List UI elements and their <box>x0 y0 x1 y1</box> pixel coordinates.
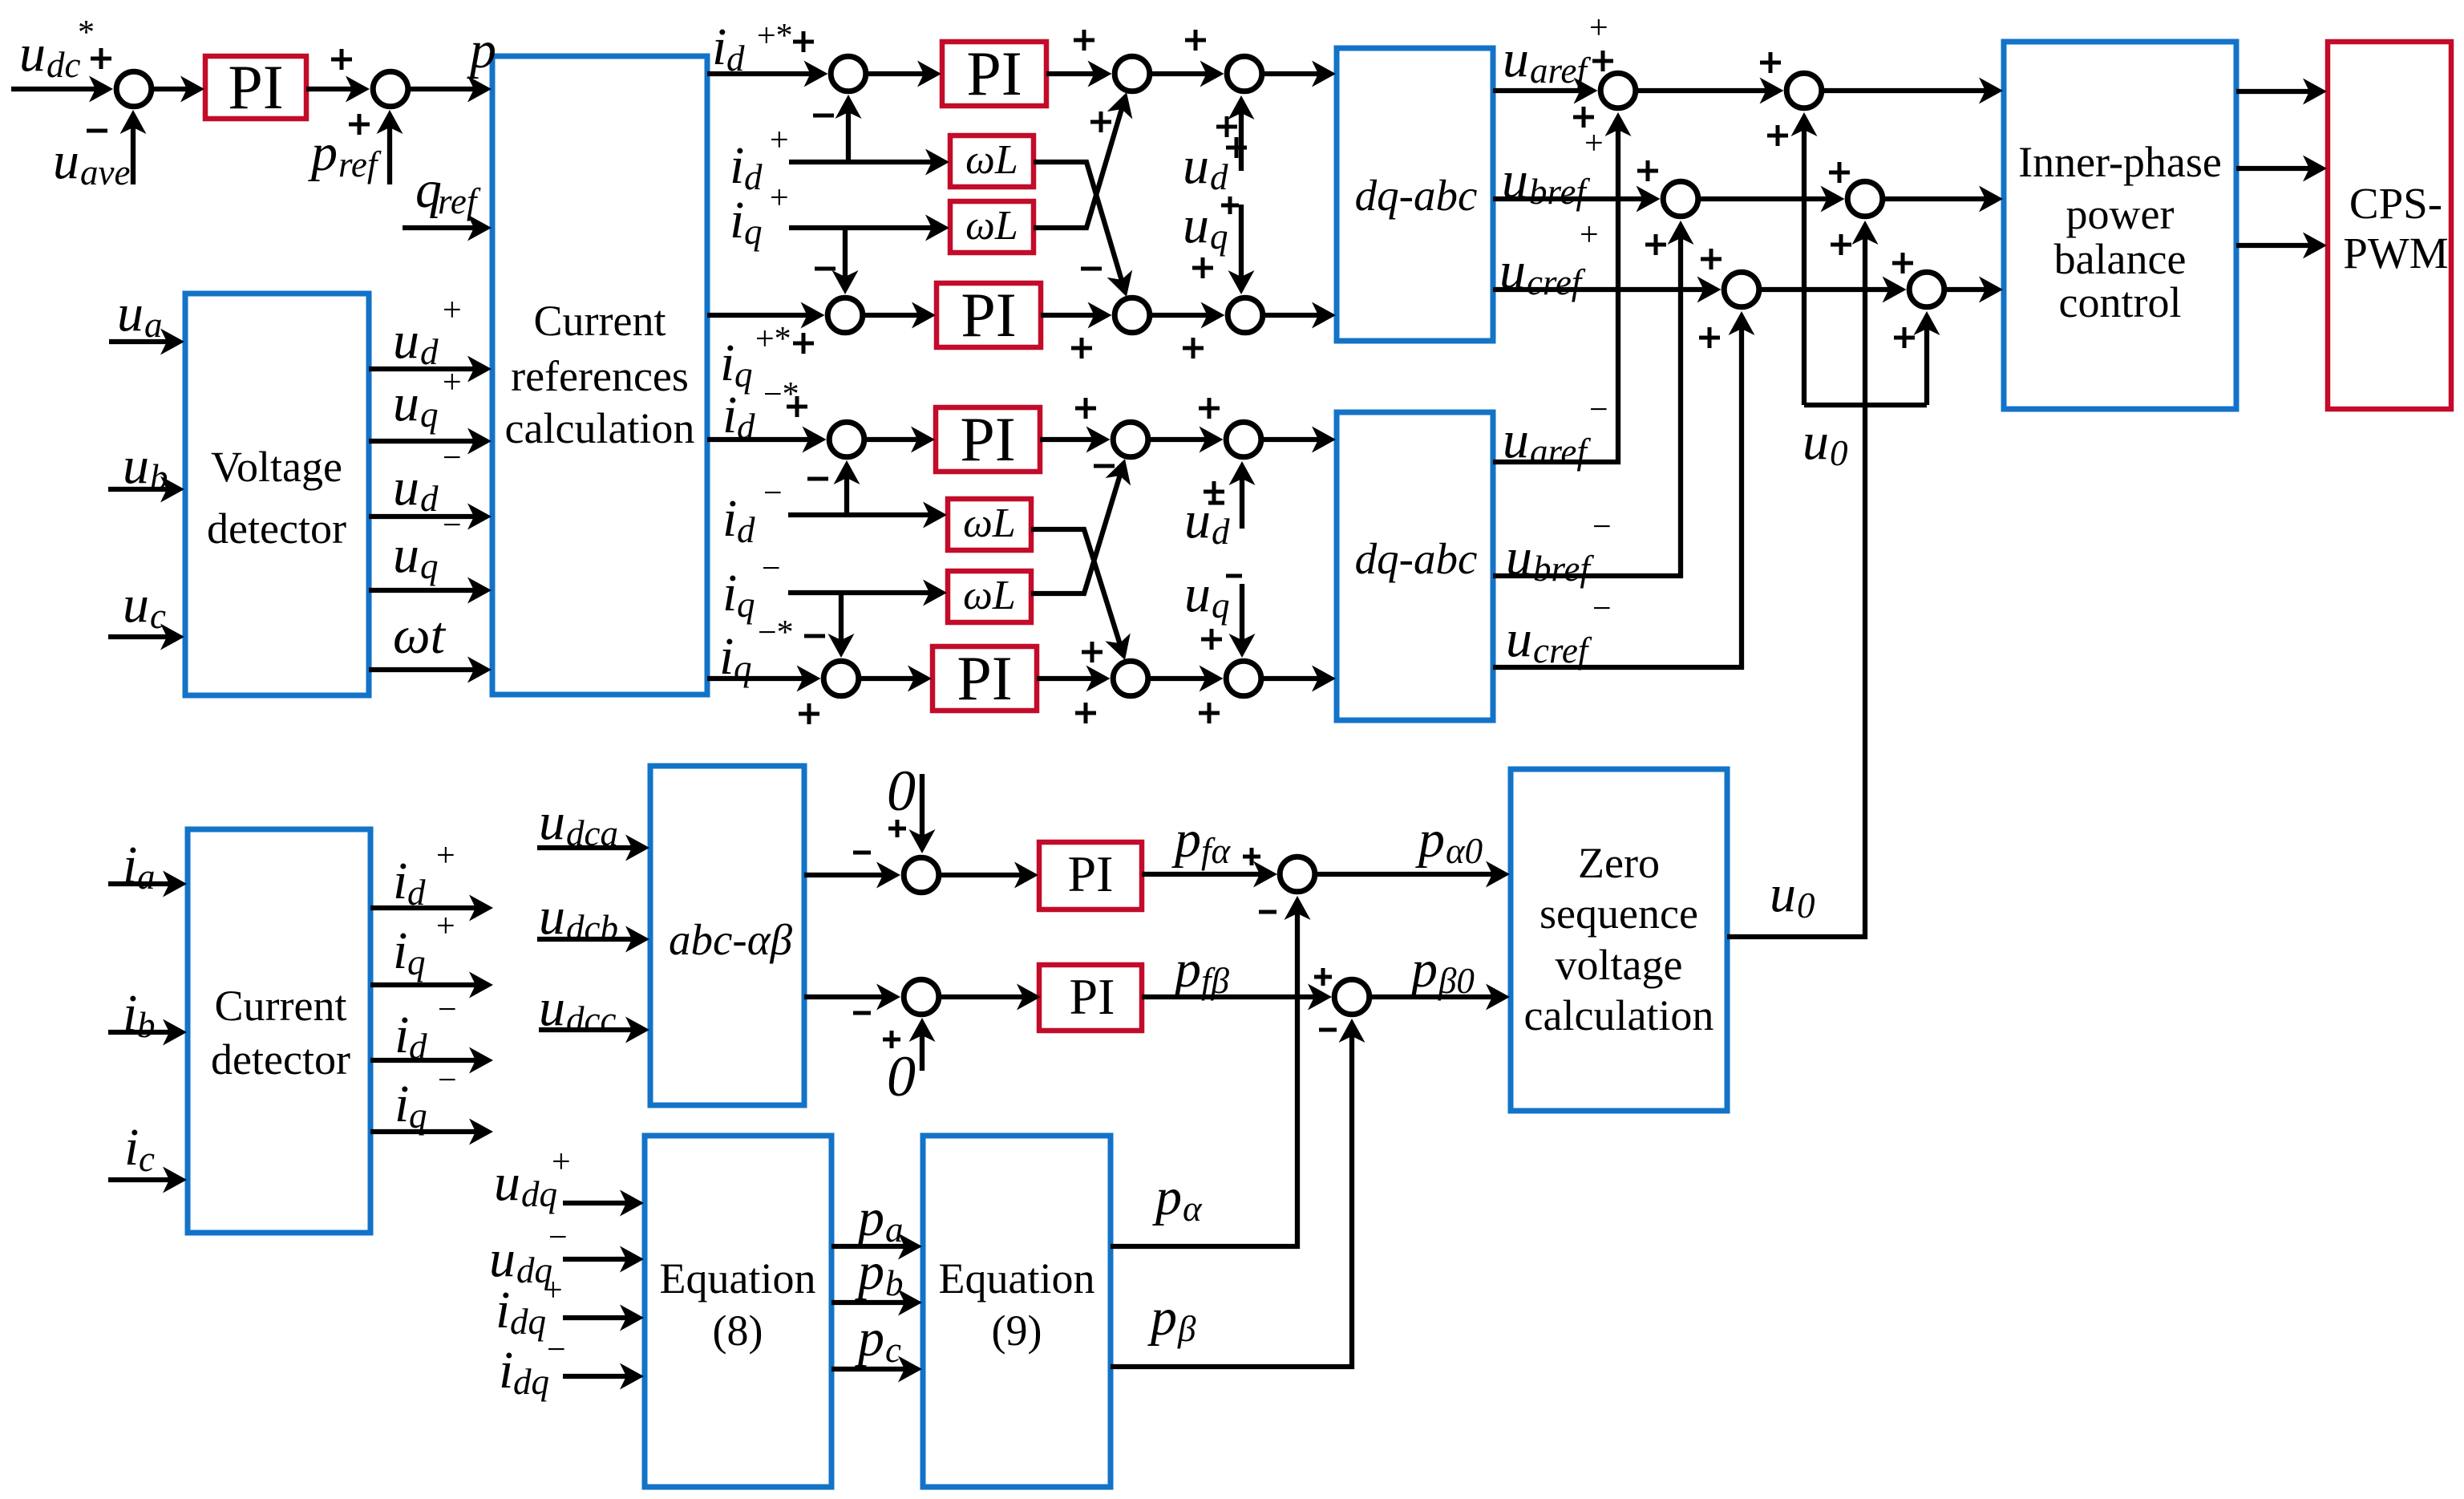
svg-text:a: a <box>144 305 163 345</box>
svg-text:u: u <box>539 887 565 946</box>
svg-text:cref: cref <box>1527 262 1586 302</box>
svg-text:dcc: dcc <box>566 999 616 1039</box>
svg-text:u: u <box>123 575 149 634</box>
svg-text:fα: fα <box>1201 831 1232 871</box>
svg-text:p: p <box>855 1242 884 1301</box>
svg-text:detector: detector <box>211 1035 350 1084</box>
svg-text:abc-αβ: abc-αβ <box>669 915 793 964</box>
svg-text:p: p <box>1171 940 1201 999</box>
svg-text:ωL: ωL <box>965 137 1018 183</box>
svg-text:Voltage: Voltage <box>211 443 342 491</box>
svg-text:q: q <box>1212 585 1230 626</box>
svg-text:PI: PI <box>961 280 1016 350</box>
svg-text:i: i <box>393 852 407 910</box>
svg-text:−: − <box>1592 508 1612 545</box>
svg-text:dq: dq <box>510 1302 546 1342</box>
svg-text:d: d <box>420 332 439 372</box>
svg-text:p: p <box>1408 940 1438 999</box>
svg-text:a: a <box>137 857 156 897</box>
svg-text:voltage: voltage <box>1556 941 1683 989</box>
svg-text:+: + <box>770 180 789 217</box>
svg-text:−: − <box>443 507 462 544</box>
svg-text:u: u <box>1183 136 1209 195</box>
svg-text:β: β <box>1177 1309 1196 1349</box>
svg-text:calculation: calculation <box>1524 991 1714 1039</box>
svg-text:references: references <box>511 352 689 400</box>
svg-text:i: i <box>394 1075 409 1133</box>
svg-text:i: i <box>720 334 734 392</box>
svg-text:i: i <box>499 1341 513 1400</box>
svg-text:PI: PI <box>960 404 1015 474</box>
svg-text:q: q <box>420 395 439 435</box>
svg-text:α: α <box>1183 1189 1203 1229</box>
svg-text:u: u <box>117 284 144 342</box>
svg-text:PI: PI <box>1070 968 1115 1025</box>
svg-text:u: u <box>1503 411 1529 469</box>
svg-text:u: u <box>19 24 46 83</box>
svg-text:+: + <box>436 908 455 945</box>
svg-text:q: q <box>407 942 426 982</box>
svg-text:calculation: calculation <box>505 404 695 452</box>
svg-text:u: u <box>393 311 419 370</box>
svg-text:PI: PI <box>957 643 1012 713</box>
svg-text:dcb: dcb <box>566 908 618 948</box>
svg-text:detector: detector <box>207 504 346 553</box>
svg-text:i: i <box>730 136 744 195</box>
svg-text:−: − <box>763 475 783 512</box>
svg-text:u: u <box>1499 241 1526 300</box>
svg-text:0: 0 <box>887 759 916 823</box>
svg-text:i: i <box>722 386 737 444</box>
svg-text:u: u <box>539 792 565 851</box>
svg-text:u: u <box>53 132 79 190</box>
svg-text:−: − <box>1589 391 1608 428</box>
svg-text:0: 0 <box>887 1044 916 1108</box>
svg-text:ωL: ωL <box>963 573 1016 618</box>
svg-text:u: u <box>123 436 149 495</box>
svg-text:i: i <box>722 564 737 622</box>
svg-text:u: u <box>489 1230 516 1288</box>
svg-text:cref: cref <box>1533 630 1592 670</box>
svg-text:*: * <box>78 14 95 51</box>
svg-text:ref: ref <box>338 144 382 184</box>
svg-text:u: u <box>393 374 419 432</box>
svg-text:u: u <box>1506 528 1532 586</box>
svg-text:u: u <box>1184 491 1211 549</box>
svg-text:PI: PI <box>966 38 1022 108</box>
svg-text:d: d <box>744 157 763 197</box>
svg-text:i: i <box>394 1006 409 1064</box>
svg-text:PI: PI <box>228 52 283 122</box>
svg-text:i: i <box>722 489 737 548</box>
svg-text:PI: PI <box>1068 845 1114 902</box>
svg-text:i: i <box>496 1281 510 1339</box>
svg-text:u: u <box>539 978 565 1037</box>
svg-text:p: p <box>1152 1168 1182 1226</box>
svg-text:−: − <box>547 1331 566 1368</box>
svg-text:Current: Current <box>215 982 347 1030</box>
svg-text:ωL: ωL <box>965 203 1018 249</box>
svg-text:Equation: Equation <box>939 1254 1095 1303</box>
svg-text:i: i <box>719 627 734 686</box>
svg-text:d: d <box>1210 157 1228 197</box>
svg-text:i: i <box>124 1118 139 1177</box>
svg-text:d: d <box>420 479 439 519</box>
svg-text:p: p <box>855 1189 884 1247</box>
svg-text:i: i <box>393 922 407 980</box>
svg-text:aref: aref <box>1530 431 1591 472</box>
svg-text:c: c <box>150 596 166 636</box>
svg-text:−*: −* <box>763 376 799 413</box>
svg-text:α0: α0 <box>1446 831 1483 871</box>
svg-text:Equation: Equation <box>660 1254 816 1303</box>
svg-text:PWM: PWM <box>2343 229 2448 278</box>
svg-text:dc: dc <box>47 45 81 85</box>
svg-text:u: u <box>1502 151 1528 209</box>
svg-text:u: u <box>1184 565 1211 623</box>
svg-text:fβ: fβ <box>1201 961 1230 1001</box>
svg-text:ωt: ωt <box>393 606 447 665</box>
svg-text:+: + <box>552 1144 571 1181</box>
svg-text:+*: +* <box>757 18 793 55</box>
svg-text:q: q <box>409 1096 427 1136</box>
svg-text:u: u <box>1503 30 1529 88</box>
svg-text:b: b <box>150 457 168 497</box>
svg-text:CPS-: CPS- <box>2349 179 2442 228</box>
svg-text:i: i <box>123 984 137 1043</box>
svg-text:b: b <box>885 1263 904 1303</box>
svg-text:+: + <box>1580 217 1599 253</box>
svg-text:u: u <box>494 1153 520 1212</box>
svg-text:0: 0 <box>1830 433 1848 473</box>
svg-text:+: + <box>443 292 462 329</box>
svg-text:d: d <box>407 873 426 913</box>
svg-text:i: i <box>730 191 744 249</box>
svg-text:q: q <box>734 354 753 395</box>
svg-text:Current: Current <box>534 297 666 345</box>
svg-text:u: u <box>393 525 419 584</box>
svg-text:(9): (9) <box>992 1307 1042 1355</box>
svg-text:−: − <box>438 991 457 1028</box>
svg-text:d: d <box>737 510 755 550</box>
svg-text:bref: bref <box>1529 172 1590 212</box>
svg-text:d: d <box>409 1027 427 1067</box>
svg-text:+: + <box>770 122 789 159</box>
svg-text:balance: balance <box>2054 235 2187 283</box>
svg-text:dq-abc: dq-abc <box>1355 171 1478 220</box>
svg-text:power: power <box>2066 190 2175 238</box>
svg-text:dq: dq <box>513 1362 549 1402</box>
svg-text:sequence: sequence <box>1539 889 1698 938</box>
svg-text:p: p <box>1171 810 1201 869</box>
svg-text:+: + <box>1584 125 1604 162</box>
svg-text:q: q <box>734 648 752 688</box>
svg-text:dq-abc: dq-abc <box>1355 534 1478 583</box>
svg-text:−*: −* <box>758 614 794 651</box>
svg-text:i: i <box>712 18 726 76</box>
svg-text:q: q <box>744 212 763 252</box>
svg-text:−: − <box>443 440 462 476</box>
svg-text:−: − <box>1592 590 1612 627</box>
svg-text:d: d <box>726 38 745 79</box>
svg-text:d: d <box>737 407 755 447</box>
svg-text:+*: +* <box>755 321 791 358</box>
svg-text:+: + <box>544 1272 563 1309</box>
svg-text:−: − <box>762 550 781 587</box>
svg-text:+: + <box>443 364 462 401</box>
svg-text:dca: dca <box>566 813 618 853</box>
svg-text:q: q <box>1210 217 1228 257</box>
svg-text:p: p <box>467 21 496 79</box>
svg-text:−: − <box>548 1219 568 1256</box>
svg-text:β0: β0 <box>1438 961 1475 1001</box>
svg-text:bref: bref <box>1533 549 1594 589</box>
svg-text:−: − <box>438 1062 457 1099</box>
svg-text:i: i <box>123 836 137 894</box>
svg-text:p: p <box>1415 810 1445 869</box>
svg-text:d: d <box>1212 512 1230 552</box>
svg-text:Zero: Zero <box>1578 839 1660 887</box>
svg-text:p: p <box>308 124 338 182</box>
svg-text:a: a <box>885 1209 904 1250</box>
svg-text:p: p <box>855 1309 884 1367</box>
svg-text:b: b <box>137 1005 156 1045</box>
svg-text:ref: ref <box>438 181 481 221</box>
svg-text:+: + <box>1589 10 1608 47</box>
svg-text:(8): (8) <box>713 1307 763 1355</box>
svg-text:ωL: ωL <box>963 500 1016 546</box>
svg-text:Inner-phase: Inner-phase <box>2018 138 2222 186</box>
svg-text:q: q <box>737 585 755 625</box>
svg-text:0: 0 <box>1797 885 1815 926</box>
svg-text:q: q <box>420 546 439 586</box>
svg-text:+: + <box>436 837 455 874</box>
svg-text:p: p <box>1147 1288 1177 1347</box>
svg-text:c: c <box>139 1139 155 1179</box>
svg-text:c: c <box>885 1330 901 1370</box>
svg-text:u: u <box>393 458 419 517</box>
svg-text:ave: ave <box>80 152 130 192</box>
svg-text:u: u <box>1802 412 1829 471</box>
svg-text:aref: aref <box>1530 51 1591 91</box>
svg-text:u: u <box>1770 865 1796 923</box>
svg-text:u: u <box>1183 196 1209 254</box>
svg-text:control: control <box>2059 278 2182 326</box>
svg-text:u: u <box>1506 610 1532 668</box>
